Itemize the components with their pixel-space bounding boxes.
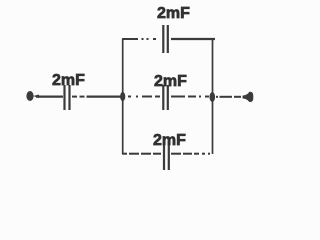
capacitor C3 2mF (middle branch) [154, 73, 187, 110]
terminal T1 (left input) [26, 91, 39, 101]
wire middle branch (dashed) [128, 96, 209, 98]
capacitor C4 2mF (bottom branch) [153, 132, 186, 170]
wire box right edge [212, 39, 214, 154]
svg-text:2mF: 2mF [154, 73, 187, 90]
svg-text:2mF: 2mF [153, 132, 186, 149]
node A (left junction) [120, 92, 125, 101]
node B (right junction) [210, 92, 216, 102]
svg-text:2mF: 2mF [52, 72, 85, 89]
wire C1 to node A (part dashed) [72, 96, 122, 98]
wire box bottom edge (dashed) [122, 153, 210, 155]
capacitor C2 2mF (top branch) [157, 5, 190, 53]
svg-text:2mF: 2mF [157, 5, 190, 22]
capacitor C1 2mF (series) [52, 72, 85, 110]
wire box left edge [122, 39, 124, 154]
terminal T2 (right output) [243, 92, 254, 102]
wire box top edge [122, 38, 215, 40]
wire node B to output (dashed) [216, 96, 241, 98]
wire input to C1 [36, 95, 63, 97]
